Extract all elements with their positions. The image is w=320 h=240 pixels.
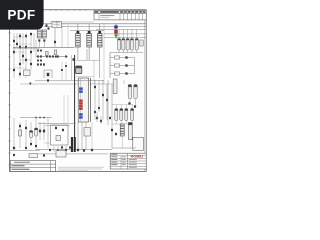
- diode D51: [134, 105, 136, 107]
- diode D81: [43, 130, 45, 133]
- wire center link: [76, 60, 100, 62]
- ic U4 box: [84, 128, 90, 137]
- resistor R28: [73, 58, 75, 61]
- resistor R95: [13, 154, 15, 156]
- wire c40 bottom lead: [115, 121, 117, 125]
- wire drop x62: [61, 24, 63, 47]
- wire bl vertical 5: [39, 122, 41, 140]
- wire c41 bottom lead: [120, 121, 122, 125]
- wire stub bc1: [96, 112, 98, 122]
- zone tick L8: [8, 116, 11, 118]
- wire drop x55: [54, 28, 56, 48]
- PDF badge: [0, 0, 44, 30]
- capacitor C61 tall body: [74, 137, 76, 152]
- junction dot x40: [39, 117, 40, 118]
- wire bc extra 4: [65, 145, 67, 152]
- wire bl vertical 2: [25, 120, 27, 148]
- title block row line: [110, 163, 146, 165]
- zone tick T4: [73, 9, 75, 11]
- diode D13: [61, 69, 63, 71]
- wire c31 bottom: [135, 99, 137, 105]
- zone tick L0: [8, 20, 11, 22]
- wire mid bus A: [13, 46, 75, 48]
- wire connector-right 1: [98, 80, 100, 112]
- wire cb v2: [67, 95, 69, 123]
- wire connector-right 3: [106, 84, 108, 120]
- resistor R70 striped body: [120, 124, 124, 136]
- title block text R1: [129, 161, 137, 164]
- resistor R50 box: [115, 56, 120, 59]
- title block column line: [127, 153, 129, 169]
- resistor R94: [35, 145, 37, 147]
- parts table row line 1: [10, 163, 55, 165]
- arrow marker: [56, 21, 59, 23]
- wire arrow stub: [56, 22, 58, 28]
- diode D45 body: [140, 40, 143, 46]
- wire mid bus D: [35, 80, 90, 82]
- wire bc link: [44, 142, 50, 144]
- wire ladder branch 0: [110, 57, 135, 59]
- wire left link 4: [20, 59, 31, 61]
- wire connector top link: [76, 80, 104, 82]
- wire c40 top lead: [115, 105, 117, 109]
- resistor R82: [96, 117, 98, 119]
- net marker triangle: [29, 83, 32, 85]
- title block row line: [110, 165, 146, 167]
- wire left column 1: [16, 33, 18, 47]
- zone tick T2: [61, 9, 63, 11]
- wire left column 5: [30, 33, 32, 70]
- capacitor C30: [128, 85, 131, 99]
- connector J1 pin 6: [79, 108, 83, 111]
- connector J1 body: [78, 78, 88, 122]
- zone tick T0: [49, 9, 51, 11]
- capacitor C31: [134, 85, 137, 99]
- capacitor C2: [13, 51, 15, 53]
- resistor R96: [49, 149, 51, 151]
- title block frame: [110, 153, 146, 169]
- resistor R7: [16, 43, 18, 45]
- resistor R41: [106, 99, 108, 101]
- revision table column line: [98, 10, 100, 20]
- revision table header text 1: [100, 11, 119, 13]
- resistor R31: [54, 41, 56, 43]
- transformer T1: [76, 24, 81, 60]
- title block text R3: [129, 166, 137, 169]
- revision table header text 4: [128, 11, 131, 13]
- revision table row line: [94, 13, 146, 15]
- zone tick L2: [8, 44, 11, 46]
- ic U5 box: [56, 151, 66, 158]
- resistor R92: [55, 127, 57, 129]
- capacitor C72: [35, 128, 38, 136]
- wire connector-down 0: [77, 122, 79, 150]
- parts table text r2: [12, 165, 25, 166]
- resistor R90: [19, 125, 21, 127]
- note text block: [58, 166, 104, 169]
- wire top bus 5: [104, 36, 146, 38]
- wire center rail companion: [71, 55, 73, 80]
- title block column line 2: [120, 156, 122, 169]
- title block text M3: [122, 163, 126, 166]
- wire bracket right: [51, 70, 53, 78]
- wire left link 2: [20, 43, 31, 45]
- wire transformer pin bus: [70, 29, 104, 31]
- title block text L0: [111, 153, 117, 156]
- zone tick L5: [8, 80, 11, 82]
- note text line 1: [38, 152, 108, 155]
- wire left column 2: [19, 33, 21, 78]
- wire left column 4: [25, 33, 27, 78]
- resistor R16: [57, 55, 59, 57]
- junction dot x44: [43, 117, 44, 118]
- diode D30: [102, 94, 104, 96]
- transformer T3: [97, 24, 102, 60]
- revision table column line: [134, 10, 136, 20]
- diode D91: [57, 149, 59, 151]
- title block text L3: [111, 161, 117, 164]
- diode D12: [65, 65, 67, 67]
- connector J1 right rail: [90, 78, 92, 122]
- wire ladder rail: [109, 53, 111, 78]
- capacitor C3: [30, 63, 32, 65]
- diode D41: [125, 64, 127, 66]
- svg-text:PDF: PDF: [7, 8, 35, 23]
- wire under cluster: [112, 123, 132, 125]
- wire center v x94: [93, 60, 95, 84]
- resistor R25: [40, 63, 42, 65]
- wire bl top link: [20, 117, 52, 119]
- title block text L1: [111, 155, 117, 158]
- wire connector-down 1: [81, 122, 83, 150]
- wire left link 3: [14, 51, 26, 53]
- wire ladder branch 2: [110, 73, 135, 75]
- relay K1 inner line 2: [54, 24, 61, 26]
- relay K1 box: [52, 22, 62, 28]
- capacitor C20: [118, 30, 121, 53]
- zone tick L6: [8, 92, 11, 94]
- wire left column 3: [22, 33, 24, 64]
- capacitor C70 body: [19, 130, 22, 136]
- wire bracket top: [44, 69, 52, 71]
- wire lower link B: [45, 125, 70, 127]
- wire left column 6: [33, 33, 35, 52]
- wire cap c30 top: [123, 80, 125, 84]
- diode D83: [13, 147, 15, 149]
- resistor R14: [52, 55, 54, 57]
- resistor R60 body: [113, 79, 117, 94]
- diode D50: [128, 102, 130, 104]
- diode D80: [39, 130, 41, 133]
- resistor R17: [65, 55, 67, 57]
- parts table row line 2: [10, 167, 55, 169]
- wire r70 lead: [121, 136, 123, 148]
- title block row line: [110, 160, 146, 162]
- wire mid bus C: [36, 56, 68, 58]
- zone tick L11: [8, 152, 11, 154]
- wire bc extra 2: [57, 146, 59, 152]
- capacitor C41: [120, 109, 123, 121]
- resistor R2: [25, 35, 27, 37]
- wire mid v2: [65, 62, 67, 80]
- diode D70: [91, 149, 93, 151]
- wire mid v1: [61, 62, 63, 80]
- resistor R52 box: [115, 72, 120, 75]
- zone tick T6: [85, 9, 87, 11]
- resistor R51 box: [115, 64, 120, 67]
- wire r32 lead: [38, 42, 40, 48]
- wire right-mid rail 1: [107, 80, 109, 125]
- resistor R18: [37, 50, 39, 52]
- diode D31: [94, 111, 96, 113]
- diode D2: [25, 59, 27, 61]
- parts table frame: [10, 161, 55, 172]
- capacitor C4 body: [46, 52, 49, 56]
- page border frame: [10, 10, 147, 172]
- revision table column line: [142, 10, 144, 20]
- title block text R2: [129, 163, 137, 166]
- resistor R81: [83, 149, 85, 151]
- wire bottom-right bus: [112, 147, 136, 149]
- wire T2 lower: [86, 49, 88, 60]
- revision table frame: [94, 10, 146, 20]
- revision table column line: [138, 10, 140, 20]
- transistor Q2: [47, 73, 50, 76]
- zone tick L9: [8, 128, 11, 130]
- resistor R33: [43, 39, 45, 41]
- resistor R5: [30, 51, 32, 53]
- connector J1 pin 4: [79, 102, 83, 105]
- resistor R91: [25, 127, 27, 129]
- capacitor C50 top cap: [128, 123, 132, 126]
- diode D71: [100, 120, 102, 122]
- wire left link 5: [14, 67, 26, 69]
- title block text L4: [111, 163, 117, 166]
- capacitor C15 electrolytic can: [76, 66, 82, 74]
- wire bl vertical 1: [19, 122, 21, 148]
- resistor R6: [19, 63, 21, 65]
- inductor L1 box: [24, 70, 31, 76]
- resistor R80: [77, 149, 79, 151]
- svg-text:KO96LI: KO96LI: [131, 154, 144, 158]
- revision table header text 5: [132, 11, 135, 13]
- wire connector-right 2: [102, 80, 104, 120]
- title block row line: [110, 157, 146, 159]
- connector J1 pin 7: [79, 113, 83, 116]
- capacitor C40: [115, 109, 118, 121]
- connector J1 inner line: [80, 78, 82, 122]
- resistor R42: [98, 107, 100, 109]
- wire long bottom bus: [36, 149, 112, 151]
- capacitor C22: [126, 30, 129, 53]
- test point blue: [114, 25, 118, 28]
- resistor R15: [55, 55, 57, 57]
- inductor L2 box: [56, 136, 61, 141]
- resistor R3: [13, 40, 15, 42]
- capacitor C24: [135, 30, 138, 53]
- resistor R12: [46, 55, 48, 57]
- transformer T2: [87, 24, 92, 60]
- connector J1 pin 3: [79, 99, 83, 102]
- connector J1 pin 2: [79, 90, 83, 93]
- wire bl vertical 3: [30, 122, 32, 146]
- wire left link 1: [14, 36, 26, 38]
- capacitor C23: [130, 30, 133, 53]
- wire c42 bottom lead: [125, 121, 127, 125]
- wire cap row bottom bus: [110, 52, 143, 54]
- capacitor C50 body: [128, 123, 132, 140]
- zone tick L4: [8, 68, 11, 70]
- wire bottom-left bus: [10, 149, 40, 151]
- wire center v x104 ext: [103, 60, 105, 84]
- zone tick L7: [8, 104, 11, 106]
- title block text L2: [111, 158, 117, 161]
- revision table header text 0: [95, 11, 99, 13]
- diode D11: [40, 60, 42, 62]
- transistor Q5: [62, 129, 64, 131]
- connector J1 pin 8: [79, 116, 83, 119]
- wire top bus 1: [44, 23, 146, 25]
- capacitor C71: [30, 131, 33, 138]
- diode D40: [125, 56, 127, 58]
- diode D42: [125, 72, 127, 74]
- resistor R24: [37, 63, 39, 65]
- resistor R4: [25, 46, 27, 48]
- wire test point column: [115, 24, 117, 39]
- zone tick T1: [55, 9, 57, 11]
- wire mid bus B: [13, 48, 40, 50]
- resistor R30: [48, 27, 50, 29]
- wire top bus 2: [44, 26, 146, 28]
- wire left column 7: [35, 40, 37, 57]
- zone tick L12: [8, 164, 11, 166]
- resistor R11: [40, 55, 42, 57]
- resistor R32: [38, 39, 40, 41]
- diode D1: [30, 33, 32, 35]
- resistor R9: [22, 55, 24, 57]
- wire connector-right 0: [94, 80, 96, 120]
- resistor R1: [19, 35, 21, 37]
- revision table header text 2: [120, 11, 123, 13]
- wire bl vertical 0: [13, 118, 15, 150]
- capacitor C43: [131, 109, 134, 121]
- wire left column 0: [13, 33, 15, 78]
- wire right-mid link: [112, 104, 133, 106]
- wire r33 lead: [43, 42, 45, 48]
- zone tick T5: [79, 9, 81, 11]
- wire stub bc3: [91, 122, 93, 150]
- resistor R26: [43, 63, 45, 65]
- capacitor C60 tall body: [71, 137, 73, 152]
- wire ladder branch 1: [110, 65, 135, 67]
- revision table header text 3: [124, 11, 127, 13]
- inner frame right line: [144, 10, 146, 171]
- revision table row text: [100, 15, 114, 16]
- wire c42 top lead: [125, 105, 127, 109]
- resistor R10: [37, 55, 39, 57]
- revision table column line: [127, 10, 129, 20]
- diode D92: [65, 149, 67, 151]
- resistor R8: [19, 73, 21, 75]
- resistor R71: [111, 129, 113, 131]
- parts table text r3: [12, 169, 30, 170]
- title block text M0: [122, 155, 126, 158]
- resistor R19: [40, 50, 42, 52]
- resistor R97: [61, 146, 63, 148]
- title block row line: [110, 155, 146, 157]
- revision table header text 7: [140, 11, 142, 13]
- wire bl vertical 7: [47, 118, 49, 148]
- wire stub bc2: [100, 116, 102, 124]
- title block text M1: [122, 158, 126, 161]
- wire main center rail: [74, 55, 76, 150]
- zone tick L1: [8, 32, 11, 34]
- wire c30 bottom: [129, 99, 131, 102]
- diode D82: [25, 147, 27, 149]
- test point red: [114, 30, 118, 34]
- revision table column line: [123, 10, 125, 20]
- wire right-mid rail 2: [111, 84, 113, 148]
- diode D10: [37, 60, 39, 62]
- wire above connector: [76, 76, 94, 78]
- wire top bus 4: [104, 33, 146, 35]
- resistor R27: [47, 79, 49, 81]
- parts table column line: [49, 161, 51, 172]
- wire top bus 3: [96, 29, 146, 31]
- junction dot x36: [35, 117, 36, 118]
- wire top stub: [50, 21, 94, 23]
- inductor L10 hatched box: [37, 30, 41, 38]
- wire T3 lower: [99, 49, 101, 78]
- wire connector-down 2: [85, 122, 87, 150]
- test point green: [114, 35, 118, 38]
- relay K2 box: [29, 154, 38, 158]
- wire bracket left: [43, 70, 45, 78]
- wire lower link A: [38, 123, 76, 125]
- wire drop x68: [67, 24, 69, 47]
- resistor R93: [30, 143, 32, 145]
- wire center v x104: [103, 24, 105, 60]
- diode D60: [115, 133, 117, 135]
- revision table header text 6: [136, 11, 139, 13]
- wire mid bus E: [20, 83, 116, 85]
- wire cb v1: [63, 95, 65, 123]
- relay K1 inner line: [54, 22, 61, 24]
- revision table column line: [119, 10, 121, 20]
- capacitor C5 body: [54, 50, 57, 55]
- connector J1 pin 5: [79, 105, 83, 108]
- revision table column line: [130, 10, 132, 20]
- wire bl vertical 4: [35, 118, 37, 150]
- shield box SH2: [51, 125, 69, 145]
- ic U3 box: [133, 138, 144, 151]
- capacitor C1: [19, 46, 21, 48]
- wire c43 bottom lead: [131, 121, 133, 125]
- inductor L11 hatched box: [42, 30, 46, 38]
- revision table header text 8: [143, 11, 145, 13]
- resistor R13: [49, 55, 51, 57]
- diode D3: [13, 69, 15, 71]
- wire bc extra 3: [61, 145, 63, 152]
- title block text R0: [129, 158, 137, 161]
- diode D90: [43, 154, 45, 156]
- zone tick L10: [8, 140, 11, 142]
- zone tick T3: [67, 9, 69, 11]
- fuse F1: [46, 24, 48, 26]
- wire bl vertical 6: [43, 122, 45, 140]
- resistor R61: [109, 117, 111, 119]
- wire bc extra 1: [53, 146, 55, 152]
